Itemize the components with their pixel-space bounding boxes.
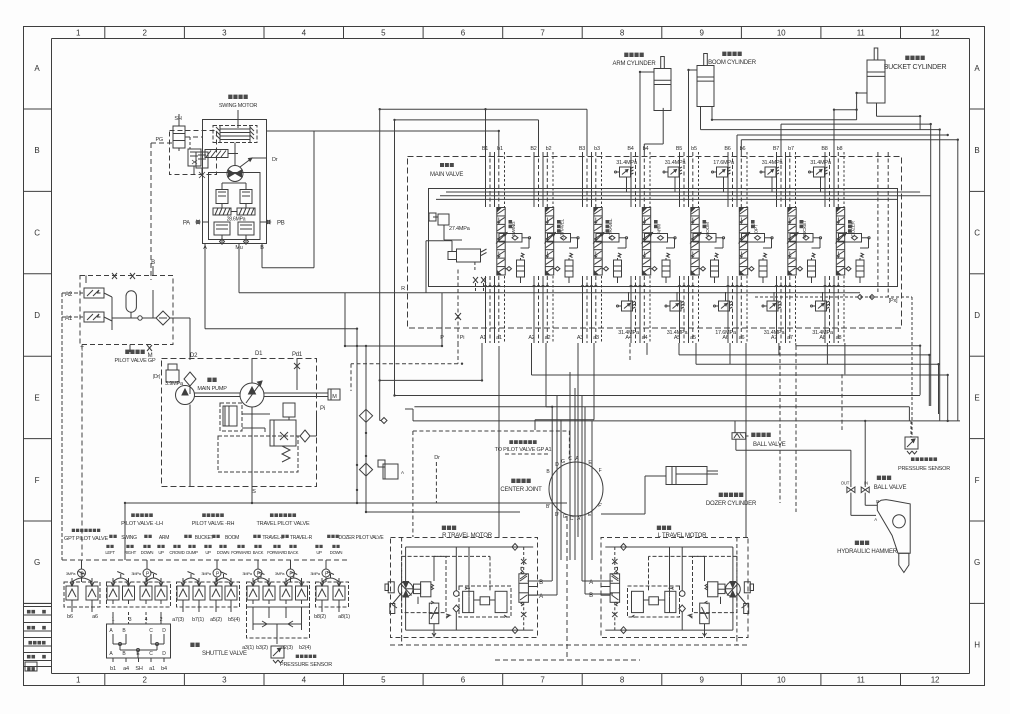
- svg-text:b1: b1: [110, 666, 116, 672]
- svg-text:S: S: [252, 489, 256, 495]
- svg-text:E': E': [588, 512, 592, 518]
- svg-text:a6: a6: [92, 614, 98, 620]
- svg-text:31.4MPa: 31.4MPa: [616, 160, 638, 166]
- svg-text:B7: B7: [773, 146, 779, 152]
- svg-text:DOZER PILOT VALVE: DOZER PILOT VALVE: [339, 535, 385, 541]
- svg-text:6: 6: [461, 676, 466, 685]
- svg-text:b4: b4: [161, 666, 167, 672]
- svg-text:D: D: [34, 311, 40, 320]
- svg-text:2: 2: [142, 676, 147, 685]
- svg-text:B8: B8: [821, 146, 827, 152]
- svg-text:12: 12: [931, 29, 940, 38]
- svg-text:R: R: [401, 286, 405, 292]
- svg-text:FORWARD: FORWARD: [231, 550, 251, 555]
- svg-text:Dr: Dr: [434, 455, 440, 461]
- svg-text:G: G: [34, 558, 40, 567]
- svg-text:DOWN: DOWN: [330, 550, 343, 555]
- svg-text:BUCKET CYLINDER: BUCKET CYLINDER: [884, 64, 947, 71]
- svg-text:1: 1: [76, 676, 81, 685]
- svg-text:3: 3: [129, 617, 132, 623]
- svg-text:HYDRAULIC HAMMER: HYDRAULIC HAMMER: [837, 549, 898, 555]
- svg-text:C: C: [974, 229, 980, 238]
- svg-text:b4: b4: [643, 146, 649, 152]
- svg-text:SH: SH: [174, 116, 181, 122]
- svg-text:BOOM: BOOM: [705, 222, 711, 236]
- svg-text:D: D: [162, 628, 166, 634]
- svg-text:9: 9: [699, 676, 704, 685]
- svg-text:31.4MPa: 31.4MPa: [810, 160, 832, 166]
- svg-text:TRAVEL-L: TRAVEL-L: [262, 535, 284, 541]
- svg-text:3MPa: 3MPa: [275, 571, 285, 576]
- svg-text:11: 11: [857, 29, 866, 38]
- svg-text:a8(1): a8(1): [338, 614, 350, 620]
- svg-text:B: B: [974, 146, 979, 155]
- svg-text:G: G: [974, 558, 980, 567]
- svg-text:B2: B2: [530, 146, 536, 152]
- svg-text:b8(2): b8(2): [314, 614, 326, 620]
- svg-text:A: A: [974, 64, 980, 73]
- svg-text:31.4MPa: 31.4MPa: [762, 160, 784, 166]
- svg-text:TRAVEL PILOT VALVE: TRAVEL PILOT VALVE: [257, 521, 310, 527]
- svg-text:LEFT: LEFT: [105, 550, 115, 555]
- svg-text:b8: b8: [837, 146, 843, 152]
- svg-text:A: A: [401, 470, 404, 475]
- svg-text:B6: B6: [724, 146, 730, 152]
- svg-text:PA: PA: [183, 221, 190, 227]
- svg-text:R TRAVEL MOTOR: R TRAVEL MOTOR: [442, 533, 493, 539]
- svg-text:RIGHT: RIGHT: [124, 550, 137, 555]
- svg-text:TO PILOT VALVE GP A1: TO PILOT VALVE GP A1: [495, 447, 552, 453]
- svg-text:Pd1: Pd1: [292, 352, 303, 358]
- svg-text:A': A': [577, 516, 581, 522]
- svg-text:1: 1: [76, 29, 81, 38]
- svg-text:A: A: [34, 64, 40, 73]
- svg-text:5: 5: [381, 676, 386, 685]
- svg-text:31.4MPa: 31.4MPa: [665, 160, 687, 166]
- svg-text:BUCKET: BUCKET: [195, 535, 214, 541]
- svg-text:A: A: [874, 517, 877, 522]
- svg-text:b7(1): b7(1): [192, 617, 204, 623]
- svg-text:SWING: SWING: [121, 535, 137, 541]
- svg-text:G: G: [561, 459, 565, 465]
- svg-text:b3(2): b3(2): [256, 645, 268, 651]
- svg-text:C: C: [149, 651, 153, 657]
- svg-text:UP: UP: [316, 550, 322, 555]
- svg-text:D: D: [162, 651, 166, 657]
- svg-text:D: D: [555, 462, 559, 468]
- svg-text:DUMP: DUMP: [186, 550, 198, 555]
- svg-text:SWING MOTOR: SWING MOTOR: [219, 103, 258, 109]
- svg-text:5: 5: [381, 29, 386, 38]
- svg-text:17.6MPa: 17.6MPa: [713, 160, 735, 166]
- svg-text:D': D': [555, 512, 559, 518]
- svg-text:b5: b5: [691, 146, 697, 152]
- svg-text:b2: b2: [546, 146, 552, 152]
- svg-text:2: 2: [142, 29, 147, 38]
- svg-text:PRESSURE SENSOR: PRESSURE SENSOR: [280, 662, 332, 668]
- svg-text:Pi: Pi: [460, 335, 465, 341]
- svg-text:F': F': [598, 503, 602, 509]
- svg-text:Dr: Dr: [272, 157, 278, 163]
- svg-text:C: C: [568, 456, 572, 462]
- svg-text:BACK: BACK: [288, 550, 299, 555]
- svg-text:BOOM CYLINDER: BOOM CYLINDER: [708, 60, 757, 66]
- svg-text:UP: UP: [205, 550, 211, 555]
- svg-text:PILOT VALVE -LH: PILOT VALVE -LH: [121, 521, 163, 527]
- svg-text:E: E: [34, 393, 39, 402]
- svg-text:10: 10: [777, 676, 786, 685]
- svg-text:BOOM: BOOM: [225, 535, 239, 541]
- svg-text:FORWARD: FORWARD: [267, 550, 287, 555]
- svg-text:B4: B4: [627, 146, 633, 152]
- svg-text:BALL VALVE: BALL VALVE: [874, 485, 907, 491]
- svg-text:b6: b6: [67, 614, 73, 620]
- svg-text:a1: a1: [149, 666, 155, 672]
- svg-text:DOWN: DOWN: [217, 550, 230, 555]
- svg-text:BACK: BACK: [253, 550, 264, 555]
- svg-text:PB: PB: [277, 221, 285, 227]
- svg-text:CROWD: CROWD: [169, 550, 184, 555]
- svg-text:F: F: [35, 476, 40, 485]
- svg-text:a4: a4: [123, 666, 129, 672]
- svg-text:31.4MPa: 31.4MPa: [764, 330, 786, 336]
- svg-text:[Px]: [Px]: [889, 298, 898, 304]
- svg-text:3: 3: [222, 676, 227, 685]
- svg-text:Pi: Pi: [320, 406, 325, 412]
- svg-text:F: F: [599, 468, 602, 474]
- svg-text:3MPa: 3MPa: [201, 571, 211, 576]
- svg-text:F: F: [975, 476, 980, 485]
- svg-text:E: E: [974, 393, 979, 402]
- svg-text:MAIN PUMP: MAIN PUMP: [197, 386, 227, 392]
- svg-text:31.4MPa: 31.4MPa: [667, 330, 689, 336]
- svg-text:b5(4): b5(4): [228, 617, 240, 623]
- svg-text:B: B: [34, 146, 39, 155]
- svg-text:PG: PG: [155, 137, 163, 143]
- svg-text:PILOT VALVE GP: PILOT VALVE GP: [115, 358, 156, 364]
- svg-text:GPT PILOT VALVE: GPT PILOT VALVE: [64, 536, 109, 542]
- svg-text:31.4MPa: 31.4MPa: [618, 330, 640, 336]
- svg-text:CENTER JOINT: CENTER JOINT: [500, 487, 542, 493]
- svg-text:11: 11: [857, 676, 866, 685]
- svg-text:27.4MPa: 27.4MPa: [449, 226, 471, 232]
- svg-text:D: D: [974, 311, 980, 320]
- svg-text:B: B: [151, 260, 155, 266]
- svg-text:DOZER CYLINDER: DOZER CYLINDER: [706, 501, 757, 507]
- svg-text:31.4MPa: 31.4MPa: [812, 330, 834, 336]
- svg-text:C: C: [34, 229, 40, 238]
- svg-text:6: 6: [461, 29, 466, 38]
- svg-text:7: 7: [540, 676, 545, 685]
- svg-text:H: H: [974, 640, 980, 649]
- svg-text:SHUTTLE VALVE: SHUTTLE VALVE: [202, 651, 247, 657]
- svg-text:a5(2): a5(2): [210, 617, 222, 623]
- svg-text:9: 9: [699, 29, 704, 38]
- svg-text:3MPa: 3MPa: [66, 571, 76, 576]
- svg-text:B5: B5: [676, 146, 682, 152]
- svg-text:10: 10: [777, 29, 786, 38]
- svg-text:C: C: [149, 628, 153, 634]
- svg-text:b7: b7: [788, 146, 794, 152]
- svg-text:7: 7: [540, 29, 545, 38]
- svg-text:a7(3): a7(3): [172, 617, 184, 623]
- svg-text:b3: b3: [594, 146, 600, 152]
- svg-text:ARM CYLINDER: ARM CYLINDER: [613, 61, 657, 67]
- svg-text:12: 12: [931, 676, 940, 685]
- svg-text:IN: IN: [864, 481, 868, 486]
- svg-text:b2(4): b2(4): [299, 645, 311, 651]
- svg-text:3MPa: 3MPa: [131, 571, 141, 576]
- svg-text:UP: UP: [158, 550, 164, 555]
- svg-text:D1: D1: [255, 351, 263, 357]
- svg-text:TRAVEL-R: TRAVEL-R: [290, 535, 313, 541]
- svg-text:M: M: [332, 394, 337, 400]
- svg-text:|Dr|: |Dr|: [153, 374, 160, 380]
- svg-text:17.6MPa: 17.6MPa: [715, 330, 737, 336]
- svg-text:PRESSURE SENSOR: PRESSURE SENSOR: [898, 466, 950, 472]
- svg-text:DOWN: DOWN: [141, 550, 154, 555]
- svg-text:C': C': [570, 516, 574, 522]
- svg-text:SH: SH: [135, 666, 142, 672]
- svg-text:B3: B3: [579, 146, 585, 152]
- svg-text:B': B': [546, 504, 550, 510]
- svg-text:L TRAVEL MOTOR: L TRAVEL MOTOR: [658, 533, 707, 539]
- svg-text:PILOT VALVE -RH: PILOT VALVE -RH: [192, 521, 235, 527]
- svg-text:MAIN VALVE: MAIN VALVE: [430, 172, 463, 178]
- svg-text:3MPa: 3MPa: [310, 571, 320, 576]
- svg-text:b6: b6: [740, 146, 746, 152]
- svg-text:BALL VALVE: BALL VALVE: [753, 442, 786, 448]
- svg-text:ARM: ARM: [159, 535, 169, 541]
- svg-text:3MPa: 3MPa: [242, 571, 252, 576]
- svg-text:b1: b1: [497, 146, 503, 152]
- svg-text:OUT: OUT: [841, 481, 850, 486]
- svg-text:3: 3: [222, 29, 227, 38]
